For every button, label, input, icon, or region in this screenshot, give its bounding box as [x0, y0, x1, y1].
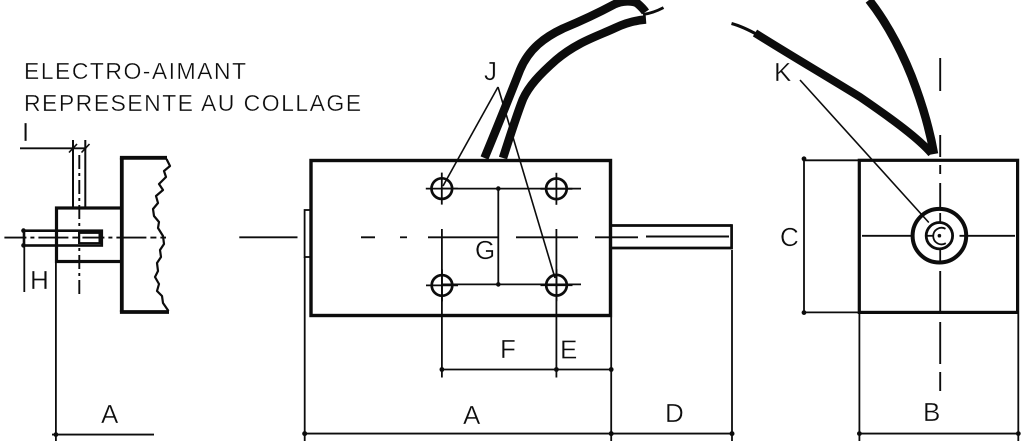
- dimension H extension line: [23, 247, 25, 292]
- mounting hole TL: [426, 173, 458, 205]
- C extension bottom: [803, 311, 860, 313]
- svg-text:ELECTRO-AIMANT: ELECTRO-AIMANT: [24, 58, 247, 84]
- vertical centerline (end view): [939, 58, 941, 91]
- svg-text:A: A: [463, 400, 481, 430]
- dot F left: [440, 367, 445, 372]
- hole bottom connector line: [442, 283, 581, 285]
- svg-text:H: H: [30, 265, 49, 295]
- coil body (side view): [57, 208, 122, 262]
- mounting hole TR: [540, 173, 572, 205]
- pole plate with break line (side view): [120, 158, 169, 312]
- horizontal crosshair (end view): [862, 235, 914, 237]
- plunger center dot: [938, 234, 942, 238]
- dimension line B: [859, 433, 1018, 435]
- leader J to hole BR: [498, 87, 555, 278]
- dot B right: [1016, 431, 1021, 436]
- dimension line A D: [305, 433, 732, 435]
- leader J to hole TL: [443, 87, 498, 186]
- dot E right: [609, 367, 614, 372]
- dimension line I: [20, 144, 90, 153]
- svg-text:D: D: [665, 398, 684, 428]
- plunger rod (side view): [24, 231, 102, 246]
- lead wire 4: [869, 0, 934, 154]
- dimension line C: [803, 159, 805, 313]
- dot B left: [857, 431, 862, 436]
- dot G bottom: [496, 282, 501, 287]
- plunger middle circle: [926, 223, 952, 249]
- dot A right: [609, 431, 614, 436]
- dot A left: [302, 431, 307, 436]
- horizontal centerline (front view): [239, 236, 297, 238]
- B extension right: [1017, 314, 1019, 441]
- lead wire 3 tip: [732, 24, 759, 36]
- extension line rod end: [731, 250, 733, 441]
- dot C bottom: [802, 310, 807, 315]
- left tab (front view): [305, 210, 312, 257]
- leader K to plunger: [800, 80, 929, 223]
- plunger inner arc: [933, 228, 946, 245]
- mounting hole BR: [541, 269, 573, 301]
- dot A (side view): [54, 432, 59, 437]
- C extension top: [803, 159, 860, 161]
- dimension line F E: [442, 369, 611, 371]
- lead wire 2: [503, 20, 646, 159]
- svg-text:G: G: [475, 235, 495, 265]
- dimension line A (side view): [52, 434, 154, 436]
- mounting hole BL: [426, 269, 458, 301]
- dot G top: [496, 186, 501, 191]
- svg-text:F: F: [500, 334, 516, 364]
- lead wire 3: [755, 33, 932, 154]
- rod socket detail: [79, 233, 100, 243]
- guide tube lines (side view): [73, 140, 85, 208]
- horizontal centerline (side view): [4, 237, 166, 239]
- svg-text:J: J: [484, 56, 497, 86]
- dot D right: [730, 431, 735, 436]
- break line wavy edge: [153, 159, 170, 311]
- dimension line G: [497, 189, 499, 285]
- B extension left: [858, 314, 860, 441]
- dimension A (side view) extension line: [55, 263, 57, 441]
- plunger rod (front view): [611, 224, 732, 249]
- vertical centerline (side view): [78, 155, 80, 298]
- rod end reference dots: [21, 228, 26, 233]
- extension line body right: [610, 317, 612, 441]
- svg-text:REPRESENTE AU COLLAGE: REPRESENTE AU COLLAGE: [24, 90, 363, 116]
- svg-text:C: C: [780, 222, 799, 252]
- electromagnet body (end view): [859, 160, 1017, 312]
- lead wire 1 tip: [643, 8, 664, 15]
- dot C top: [802, 156, 807, 161]
- hole top connector line: [442, 188, 581, 190]
- electromagnet body (front view): [311, 161, 611, 316]
- svg-text:E: E: [560, 335, 577, 365]
- lead wire 1: [485, 1, 646, 158]
- svg-text:K: K: [774, 57, 792, 87]
- extension line body left: [304, 257, 306, 441]
- plunger outer circle: [913, 209, 967, 263]
- hole column line right: [555, 229, 557, 378]
- hole column line left: [441, 229, 443, 378]
- dot F right: [554, 367, 559, 372]
- svg-text:B: B: [923, 397, 940, 427]
- svg-text:A: A: [101, 399, 119, 429]
- svg-text:I: I: [22, 117, 29, 147]
